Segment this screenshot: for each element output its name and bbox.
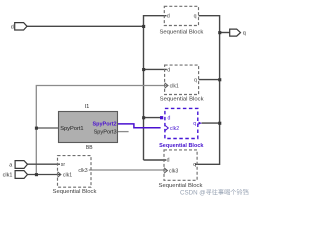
svg-text:q: q xyxy=(193,121,196,127)
svg-text:q: q xyxy=(194,78,197,84)
svg-text:d: d xyxy=(167,67,170,73)
svg-text:CSDN @寻往事喝个铃铛: CSDN @寻往事喝个铃铛 xyxy=(180,189,249,197)
svg-text:sr: sr xyxy=(61,162,66,168)
svg-text:clk1: clk1 xyxy=(63,172,72,178)
svg-text:SpyPort2: SpyPort2 xyxy=(92,122,116,128)
svg-text:BB: BB xyxy=(86,145,93,151)
svg-text:clk2: clk2 xyxy=(170,126,179,132)
svg-text:clk1: clk1 xyxy=(3,173,13,179)
svg-text:clk3: clk3 xyxy=(78,168,87,174)
svg-text:d: d xyxy=(167,158,170,164)
svg-text:q: q xyxy=(194,14,197,20)
svg-text:d: d xyxy=(11,24,14,30)
svg-text:d: d xyxy=(168,115,171,121)
svg-text:SpyPort3: SpyPort3 xyxy=(94,130,117,136)
svg-text:Sequential Block: Sequential Block xyxy=(160,96,204,102)
svg-text:Sequential Block: Sequential Block xyxy=(53,189,97,195)
svg-text:I1: I1 xyxy=(85,104,90,110)
svg-text:SpyPort1: SpyPort1 xyxy=(60,126,83,132)
svg-text:Sequential Block: Sequential Block xyxy=(159,183,203,189)
svg-text:q: q xyxy=(243,31,246,37)
svg-text:d: d xyxy=(167,14,170,20)
svg-text:Sequential Block: Sequential Block xyxy=(159,143,204,149)
svg-text:q: q xyxy=(193,162,196,168)
svg-text:clk1: clk1 xyxy=(170,83,179,89)
svg-text:clk3: clk3 xyxy=(169,168,178,174)
svg-text:Sequential Block: Sequential Block xyxy=(159,29,203,35)
